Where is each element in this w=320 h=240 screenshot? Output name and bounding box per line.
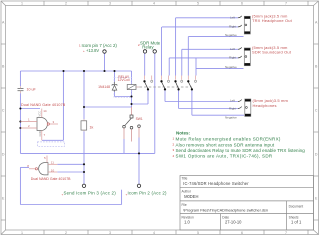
svg-text:Notes:: Notes: (176, 130, 191, 135)
svg-text:D: D (2, 153, 5, 157)
svg-text:3: 3 (109, 231, 111, 235)
svg-text:Mute Relay unenergised enables: Mute Relay unenergised enables SDR(ENRX) (176, 137, 281, 142)
svg-text:Right: Right (229, 56, 236, 60)
svg-text:Icom Pin 2 (Acc 2): Icom Pin 2 (Acc 2) (128, 190, 167, 195)
svg-text:6: 6 (241, 231, 243, 235)
svg-text:File: File (182, 203, 187, 207)
svg-text:SW1: SW1 (136, 117, 143, 121)
svg-text:4: 4 (153, 231, 155, 235)
svg-text:+: + (126, 192, 128, 196)
svg-text:Send Icom Pin 3 (Acc 2): Send Icom Pin 3 (Acc 2) (64, 190, 117, 195)
svg-text:Document: Document (289, 204, 304, 208)
svg-text:12VCoil: 12VCoil (118, 78, 130, 82)
svg-text:27-10-10: 27-10-10 (225, 219, 242, 224)
svg-text:7: 7 (285, 231, 287, 235)
svg-text:1k: 1k (90, 126, 94, 130)
svg-text:5: 5 (197, 2, 199, 6)
svg-text:Negative: Negative (225, 115, 237, 119)
svg-text:Right: Right (229, 106, 236, 110)
svg-text:\Program Files\TinyCAD\headpho: \Program Files\TinyCAD\headphone switche… (183, 208, 268, 213)
svg-text:14: 14 (43, 109, 47, 113)
svg-text:Author: Author (182, 189, 192, 193)
svg-text:6: 6 (241, 2, 243, 6)
svg-text:1.0: 1.0 (184, 219, 190, 224)
svg-text:Headphones: Headphones (253, 103, 277, 108)
svg-text:TRX Headphone Out: TRX Headphone Out (252, 18, 293, 23)
svg-text:2: 2 (65, 2, 67, 6)
svg-text:Negative: Negative (225, 33, 237, 37)
svg-text:C: C (2, 109, 5, 113)
svg-text:7: 7 (285, 2, 287, 6)
svg-text:SW1 Options are Auto, TRX(IC-7: SW1 Options are Auto, TRX(IC-746), SDR (176, 154, 273, 159)
svg-text:SDR Soundcard Out: SDR Soundcard Out (252, 49, 292, 54)
svg-text:+: + (62, 193, 64, 197)
svg-text:M0DEH: M0DEH (184, 194, 198, 199)
svg-text:1N4148: 1N4148 (98, 85, 110, 89)
svg-text:+: + (83, 49, 85, 53)
svg-text:Left: Left (230, 47, 235, 51)
svg-text:Left: Left (230, 15, 235, 19)
svg-text:11: 11 (51, 161, 54, 165)
svg-text:2: 2 (65, 231, 67, 235)
svg-text:+13.8V: +13.8V (86, 48, 99, 53)
svg-text:C: C (315, 109, 318, 113)
svg-text:Dual NAND Gate 40107B: Dual NAND Gate 40107B (31, 177, 71, 181)
svg-text:5: 5 (197, 231, 199, 235)
svg-text:Relay: Relay (142, 45, 154, 50)
svg-text:Negative: Negative (225, 65, 237, 69)
svg-text:1: 1 (21, 231, 23, 235)
svg-text:10: 10 (51, 169, 55, 173)
svg-text:3: 3 (109, 2, 111, 6)
svg-text:1 of 1: 1 of 1 (291, 219, 302, 224)
svg-text:D: D (315, 153, 318, 157)
svg-text:IC-746/SDR Headphone Switcher: IC-746/SDR Headphone Switcher (183, 181, 249, 186)
svg-text:Right: Right (229, 25, 236, 29)
svg-text:GND: GND (38, 131, 42, 137)
svg-text:Send deactivates Relay to mute: Send deactivates Relay to mute SDR and e… (176, 148, 306, 153)
svg-text:10 uF: 10 uF (27, 87, 37, 91)
svg-text:Dual NAND Gate 40107B: Dual NAND Gate 40107B (21, 103, 66, 107)
svg-text:4: 4 (153, 2, 155, 6)
svg-text:Left: Left (230, 99, 235, 103)
svg-text:1: 1 (21, 2, 23, 6)
svg-text:Also removes short across SDR: Also removes short across SDR antenna in… (176, 142, 275, 147)
svg-text:VCC: VCC (38, 111, 42, 117)
